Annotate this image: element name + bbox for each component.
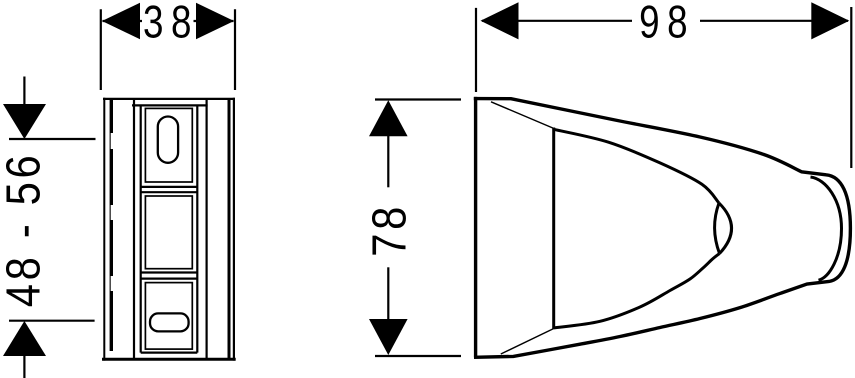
svg-text:98: 98: [639, 0, 695, 47]
svg-text:78: 78: [363, 203, 416, 257]
svg-text:38: 38: [143, 0, 199, 47]
svg-text:48 - 56: 48 - 56: [0, 152, 51, 308]
